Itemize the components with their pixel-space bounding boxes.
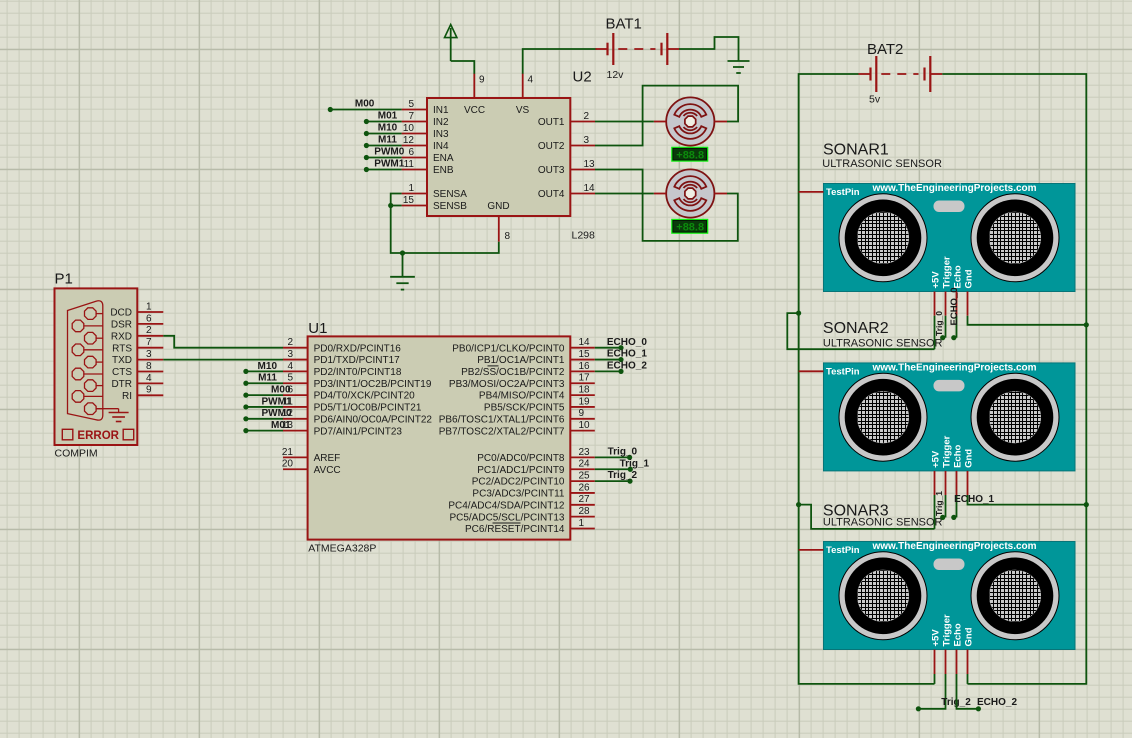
svg-text:PB5/SCK/PCINT5: PB5/SCK/PCINT5	[484, 403, 565, 414]
svg-text:ECHO_2: ECHO_2	[977, 697, 1017, 708]
svg-text:PWM0: PWM0	[374, 146, 404, 157]
label ATMEGA328P	[308, 543, 376, 555]
wire net Trig_2 at U1	[595, 479, 633, 484]
svg-text:PWM1: PWM1	[262, 396, 292, 407]
U2 pin names	[433, 105, 565, 212]
ground BAT1	[728, 61, 750, 73]
svg-text:13: 13	[584, 159, 596, 170]
svg-text:8: 8	[146, 361, 152, 372]
svg-text:5: 5	[287, 373, 293, 384]
svg-text:ECHO_1: ECHO_1	[954, 494, 994, 505]
svg-text:PC1/ADC1/PCINT9: PC1/ADC1/PCINT9	[477, 465, 565, 476]
wire BAT2 left bus	[799, 74, 935, 684]
svg-text:OUT4: OUT4	[538, 189, 565, 200]
SONAR3 Trigger pin	[916, 650, 946, 712]
svg-text:PB6/TOSC1/XTAL1/PCINT6: PB6/TOSC1/XTAL1/PCINT6	[439, 414, 565, 425]
svg-text:18: 18	[579, 385, 591, 396]
svg-text:ULTRASONIC SENSOR: ULTRASONIC SENSOR	[823, 517, 943, 529]
svg-text:VS: VS	[516, 105, 530, 116]
svg-text:3: 3	[146, 349, 152, 360]
svg-text:Trigger: Trigger	[941, 435, 952, 468]
wire net PWM0 at U1	[243, 416, 283, 421]
svg-text:PD3/INT1/OC2B/PCINT19: PD3/INT1/OC2B/PCINT19	[314, 379, 432, 390]
svg-text:www.TheEngineeringProjects.com: www.TheEngineeringProjects.com	[871, 183, 1036, 194]
SONAR2 TestPin stub	[799, 370, 824, 372]
U2 right pin numbers	[584, 111, 596, 194]
net label Trig_1	[934, 491, 944, 516]
wire SENSA/SENSB junction	[388, 194, 499, 254]
svg-text:7: 7	[408, 111, 414, 122]
svg-text:12v: 12v	[607, 69, 625, 81]
svg-text:OUT2: OUT2	[538, 141, 565, 152]
U2 pin 4 stub	[523, 73, 534, 98]
net label ECHO_0	[949, 287, 960, 325]
svg-text:PD5/T1/OC0B/PCINT21: PD5/T1/OC0B/PCINT21	[314, 403, 422, 414]
svg-text:28: 28	[579, 506, 591, 517]
svg-text:8: 8	[505, 231, 511, 242]
net label ECHO_2	[977, 697, 1017, 708]
svg-text:PC2/ADC2/PCINT10: PC2/ADC2/PCINT10	[472, 477, 565, 488]
svg-text:PB0/ICP1/CLKO/PCINT0: PB0/ICP1/CLKO/PCINT0	[452, 343, 565, 354]
label SONAR2	[823, 320, 943, 349]
label P1	[55, 271, 73, 288]
wire OUT2 loop to M1 right	[595, 86, 738, 146]
svg-text:15: 15	[579, 349, 591, 360]
P1 pin numbers	[146, 301, 152, 395]
svg-text:PD4/T0/XCK/PCINT20: PD4/T0/XCK/PCINT20	[314, 391, 416, 402]
SONAR3 TestPin stub	[799, 549, 824, 551]
svg-text:RTS: RTS	[112, 343, 132, 354]
svg-text:3: 3	[584, 135, 590, 146]
wire net M10 at U1	[243, 369, 283, 374]
svg-text:COMPIM: COMPIM	[55, 448, 98, 460]
label 5v	[869, 94, 881, 106]
svg-text:TXD: TXD	[112, 355, 132, 366]
svg-text:TestPin: TestPin	[826, 545, 860, 556]
U1 left pin numbers	[282, 337, 294, 470]
label SONAR3	[823, 503, 943, 529]
label BAT1	[606, 16, 642, 33]
SONAR2 +5V pin	[934, 471, 936, 529]
svg-text:U1: U1	[308, 320, 327, 337]
svg-text:1: 1	[408, 183, 414, 194]
U1 pin names	[314, 343, 565, 535]
svg-text:15: 15	[403, 195, 415, 206]
wire net Trig_0 at U1	[595, 455, 632, 460]
svg-text:4: 4	[287, 361, 293, 372]
svg-text:SONAR2: SONAR2	[823, 320, 889, 337]
SONAR1 Gnd pin	[968, 292, 1087, 325]
svg-text:10: 10	[403, 123, 415, 134]
svg-text:DSR: DSR	[111, 320, 132, 331]
svg-text:Trig_1: Trig_1	[620, 458, 650, 469]
SONAR1 TestPin stub	[799, 191, 824, 193]
svg-text:14: 14	[579, 337, 591, 348]
label U1	[308, 320, 327, 337]
IC body U2 L298	[427, 98, 570, 216]
U2 left pin numbers	[403, 99, 415, 206]
svg-text:6: 6	[146, 313, 152, 324]
svg-text:11: 11	[404, 159, 415, 170]
junction dots left bus	[796, 311, 801, 508]
label SONAR1	[822, 142, 942, 171]
SONAR2 Echo pin	[951, 471, 956, 520]
sonar module SONAR1	[824, 183, 1076, 291]
svg-text:DCD: DCD	[110, 308, 132, 319]
svg-text:DTR: DTR	[111, 379, 132, 390]
P1 DB9 outline	[68, 301, 103, 420]
svg-text:7: 7	[146, 337, 152, 348]
svg-text:9: 9	[146, 385, 152, 396]
svg-text:PB2/SS/OC1B/PCINT2: PB2/SS/OC1B/PCINT2	[461, 367, 565, 378]
svg-text:12: 12	[403, 135, 415, 146]
svg-text:25: 25	[579, 471, 591, 482]
svg-text:IN1: IN1	[433, 105, 449, 116]
svg-text:CTS: CTS	[112, 367, 132, 378]
wire power to U2 pin9	[451, 61, 475, 74]
svg-text:PD7/AIN1/PCINT23: PD7/AIN1/PCINT23	[314, 426, 403, 437]
svg-text:Trigger: Trigger	[941, 614, 952, 647]
svg-text:17: 17	[579, 373, 591, 384]
wire net PWM1 at U1	[243, 404, 283, 409]
svg-text:1: 1	[146, 301, 152, 312]
SONAR1 +5V pin	[934, 292, 936, 350]
U2 right pin stubs	[570, 122, 595, 194]
SONAR1 Echo pin	[951, 292, 956, 341]
P1 DB9 pin holes	[72, 308, 103, 415]
svg-text:TestPin: TestPin	[826, 366, 860, 377]
U1 right pin stubs	[570, 348, 595, 529]
label L298	[572, 230, 596, 242]
svg-text:U2: U2	[573, 69, 592, 86]
net labels U1 left	[258, 361, 292, 431]
svg-text:4: 4	[146, 373, 152, 384]
svg-text:4: 4	[528, 75, 534, 86]
wire P1 TXD to U1 PD1	[163, 359, 283, 361]
svg-text:P1: P1	[55, 271, 73, 288]
battery BAT2	[859, 56, 943, 92]
svg-text:BAT1: BAT1	[606, 16, 642, 33]
svg-text:Gnd: Gnd	[963, 627, 974, 646]
IC body U1 ATMEGA328P	[308, 336, 571, 539]
wire net PWM1 to U2	[364, 167, 402, 172]
display M2 +88.8	[671, 219, 708, 234]
power symbol VCC arrow	[445, 25, 457, 62]
net labels Trig at U1	[608, 447, 650, 482]
svg-text:PD6/AIN0/OC0A/PCINT22: PD6/AIN0/OC0A/PCINT22	[314, 414, 433, 425]
motor M1	[654, 97, 727, 145]
svg-text:3: 3	[287, 349, 293, 360]
ground under U2	[390, 250, 415, 289]
svg-text:RI: RI	[122, 391, 132, 402]
svg-text:AVCC: AVCC	[314, 465, 341, 476]
svg-text:ENA: ENA	[433, 153, 454, 164]
svg-text:SONAR1: SONAR1	[823, 142, 889, 159]
svg-text:2: 2	[584, 111, 590, 122]
svg-text:PB3/MOSI/OC2A/PCINT3: PB3/MOSI/OC2A/PCINT3	[449, 379, 565, 390]
SONAR3 +5V pin	[934, 650, 936, 684]
wire net Trig_1 at U1	[595, 467, 633, 472]
wire net M01 to U2	[364, 119, 402, 124]
wire net M01 at U1	[243, 428, 283, 433]
svg-text:24: 24	[579, 459, 591, 470]
U1 right pin numbers	[579, 337, 591, 529]
svg-text:PC5/ADC5/SCL/PCINT13: PC5/ADC5/SCL/PCINT13	[449, 512, 564, 523]
net label ECHO_1	[954, 494, 994, 505]
junction dots right bus	[1084, 322, 1089, 507]
svg-text:BAT2: BAT2	[867, 41, 903, 58]
wire net ECHO_1 at U1	[595, 357, 624, 362]
svg-text:IN3: IN3	[433, 129, 449, 140]
svg-text:OUT1: OUT1	[538, 117, 565, 128]
svg-text:ULTRASONIC SENSOR: ULTRASONIC SENSOR	[823, 337, 943, 349]
svg-text:M00: M00	[355, 98, 375, 109]
svg-text:+5V: +5V	[930, 271, 941, 289]
label BAT2	[867, 41, 903, 58]
svg-text:Echo: Echo	[952, 623, 963, 646]
net label Trig_0	[934, 311, 944, 336]
svg-text:10: 10	[579, 420, 591, 431]
wire OUT3 loop to M2 right	[595, 170, 738, 241]
svg-text:5: 5	[408, 99, 414, 110]
wire BAT1 to ground	[679, 37, 739, 61]
svg-text:Trigger: Trigger	[941, 256, 952, 289]
svg-text:1: 1	[579, 518, 585, 529]
SONAR1 Trigger pin	[940, 292, 945, 341]
connector body P1 COMPIM	[55, 288, 138, 445]
svg-text:+5V: +5V	[930, 450, 941, 468]
svg-text:M10: M10	[258, 361, 278, 372]
wire P1 RXD to U1 PD0	[163, 336, 283, 348]
P1 ERROR squares	[62, 429, 133, 440]
U2 pin 9 stub	[474, 73, 485, 98]
label 12v	[607, 69, 625, 81]
svg-text:L298: L298	[572, 230, 596, 242]
svg-text:ECHO_1: ECHO_1	[607, 349, 647, 360]
svg-text:ATMEGA328P: ATMEGA328P	[308, 543, 376, 555]
wire BAT2 right bus	[942, 74, 1086, 684]
svg-text:9: 9	[579, 408, 585, 419]
svg-text:Trig_1: Trig_1	[934, 491, 944, 516]
wire net M10 to U2	[364, 131, 402, 136]
svg-text:Gnd: Gnd	[963, 449, 974, 468]
svg-text:Gnd: Gnd	[963, 269, 974, 288]
svg-text:M01: M01	[271, 420, 291, 431]
wire OUT4 to M2 left	[595, 193, 654, 195]
wire net M11 to U2	[364, 143, 402, 148]
svg-text:ECHO_0: ECHO_0	[949, 287, 960, 325]
U2 left pin stubs	[402, 110, 427, 206]
wire net ECHO_2 at U1	[595, 369, 624, 374]
svg-text:PC6/RESET/PCINT14: PC6/RESET/PCINT14	[465, 524, 565, 535]
wire OUT1 to M1 left	[595, 121, 654, 123]
wire net PWM0 to U2	[364, 155, 402, 160]
svg-text:27: 27	[579, 494, 591, 505]
svg-text:2: 2	[146, 325, 152, 336]
svg-text:PC4/ADC4/SDA/PCINT12: PC4/ADC4/SDA/PCINT12	[448, 500, 565, 511]
sonar module SONAR3	[824, 541, 1076, 649]
svg-text:VCC: VCC	[464, 105, 485, 116]
svg-text:TestPin: TestPin	[826, 187, 860, 198]
svg-text:PD0/RXD/PCINT16: PD0/RXD/PCINT16	[314, 343, 402, 354]
svg-text:ECHO_2: ECHO_2	[607, 361, 647, 372]
svg-text:6: 6	[408, 147, 414, 158]
svg-text:PWM0: PWM0	[262, 408, 292, 419]
display M1 +88.8	[671, 147, 708, 162]
svg-text:26: 26	[579, 482, 591, 493]
svg-text:M10: M10	[378, 122, 398, 133]
svg-text:2: 2	[287, 337, 293, 348]
svg-text:9: 9	[479, 75, 485, 86]
label U2	[573, 69, 592, 86]
svg-text:+5V: +5V	[930, 629, 941, 647]
svg-text:GND: GND	[487, 201, 509, 212]
svg-text:SENSB: SENSB	[433, 201, 467, 212]
wire net ECHO_0 at U1	[595, 345, 624, 350]
svg-text:ULTRASONIC SENSOR: ULTRASONIC SENSOR	[822, 158, 942, 170]
svg-text:PB4/MISO/PCINT4: PB4/MISO/PCINT4	[479, 391, 565, 402]
net labels U2 inputs	[355, 98, 405, 169]
svg-text:20: 20	[282, 459, 294, 470]
P1 ERROR label	[77, 430, 119, 442]
label COMPIM	[55, 448, 98, 460]
wire U2 VS to BAT1	[523, 49, 597, 74]
P1 internal ground	[97, 409, 129, 422]
svg-text:Trig_0: Trig_0	[934, 311, 944, 336]
SONAR3 Echo pin	[957, 650, 982, 712]
svg-text:ENB: ENB	[433, 165, 454, 176]
wire net M00 at U1	[243, 393, 283, 398]
svg-text:www.TheEngineeringProjects.com: www.TheEngineeringProjects.com	[871, 541, 1036, 552]
SONAR2 Trigger pin	[940, 471, 945, 520]
svg-text:23: 23	[579, 447, 591, 458]
svg-text:Trig_2: Trig_2	[608, 470, 638, 481]
wire net M00 to U2	[328, 107, 402, 112]
battery BAT1	[596, 33, 680, 65]
svg-text:PB7/TOSC2/XTAL2/PCINT7: PB7/TOSC2/XTAL2/PCINT7	[439, 426, 565, 437]
svg-text:M11: M11	[378, 134, 397, 145]
svg-text:M11: M11	[258, 373, 277, 384]
wire net M11 at U1	[243, 381, 283, 386]
svg-text:IN2: IN2	[433, 117, 449, 128]
SONAR2 Gnd pin	[968, 471, 1087, 505]
svg-text:PC0/ADC0/PCINT8: PC0/ADC0/PCINT8	[477, 453, 565, 464]
svg-text:PC3/ADC3/PCINT11: PC3/ADC3/PCINT11	[472, 489, 565, 500]
wire +5V tap sonar2	[799, 505, 935, 529]
net labels ECHO at U1	[607, 337, 647, 372]
svg-text:ERROR: ERROR	[77, 430, 119, 442]
svg-text:ECHO_0: ECHO_0	[607, 337, 647, 348]
svg-text:+88.8: +88.8	[676, 222, 704, 234]
motor M2	[654, 169, 727, 217]
svg-text:OUT3: OUT3	[538, 165, 565, 176]
svg-text:SENSA: SENSA	[433, 189, 467, 200]
U2 pin 8 stub	[499, 216, 511, 242]
U1 left pin stubs	[283, 348, 308, 470]
svg-text:Echo: Echo	[952, 265, 963, 288]
wire +5V tap sonar1	[787, 313, 934, 349]
net label Trig_2	[941, 697, 971, 708]
svg-text:16: 16	[579, 361, 591, 372]
svg-text:M01: M01	[378, 110, 398, 121]
P1 pin names	[110, 308, 132, 402]
svg-text:19: 19	[579, 396, 591, 407]
svg-text:AREF: AREF	[314, 453, 341, 464]
svg-text:21: 21	[282, 447, 294, 458]
svg-text:Echo: Echo	[952, 444, 963, 467]
sonar module SONAR2	[824, 363, 1076, 471]
svg-text:+88.8: +88.8	[676, 149, 704, 161]
svg-text:14: 14	[584, 183, 596, 194]
svg-text:PD2/INT0/PCINT18: PD2/INT0/PCINT18	[314, 367, 402, 378]
P1 pin stubs	[137, 312, 163, 395]
svg-text:Trig_0: Trig_0	[608, 447, 638, 458]
svg-text:PWM1: PWM1	[374, 158, 404, 169]
SONAR3 Gnd pin	[967, 650, 969, 684]
svg-text:M00: M00	[271, 385, 291, 396]
svg-text:IN4: IN4	[433, 141, 449, 152]
svg-text:RXD: RXD	[111, 331, 132, 342]
svg-text:5v: 5v	[869, 94, 881, 106]
svg-text:www.TheEngineeringProjects.com: www.TheEngineeringProjects.com	[871, 363, 1036, 374]
svg-text:PB1/OC1A/PCINT1: PB1/OC1A/PCINT1	[477, 355, 565, 366]
svg-text:PD1/TXD/PCINT17: PD1/TXD/PCINT17	[314, 355, 401, 366]
